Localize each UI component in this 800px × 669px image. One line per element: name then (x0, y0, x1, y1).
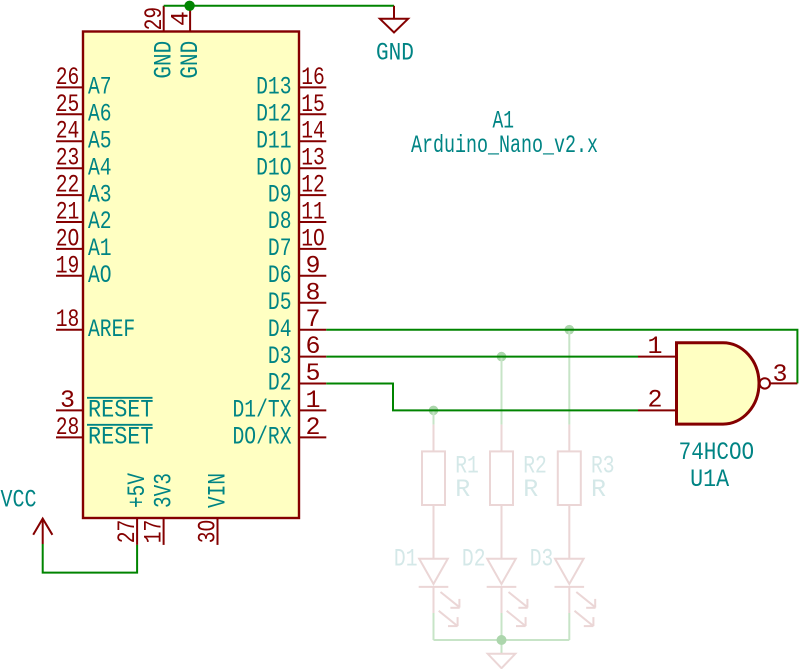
svg-text:13: 13 (301, 144, 325, 173)
svg-text:VCC: VCC (1, 486, 37, 515)
svg-text:29: 29 (140, 7, 169, 31)
wire faded D2 to rail (501, 613, 503, 640)
pin 19 (A0) left (56, 251, 112, 290)
ground symbol faded bottom (488, 640, 516, 668)
pin 11 (D8) right (268, 198, 326, 237)
svg-text:1: 1 (305, 386, 320, 415)
svg-text:D12: D12 (256, 100, 291, 129)
pin 29 (GND) top (140, 6, 179, 79)
pin 4 (GND) top (167, 6, 206, 79)
label R3 R value (591, 452, 615, 504)
svg-text:A2: A2 (88, 207, 112, 236)
svg-text:R: R (523, 475, 538, 504)
svg-text:U1A: U1A (690, 465, 729, 494)
svg-text:R: R (591, 475, 606, 504)
wire faded to R3 (568, 330, 570, 425)
pin 2 NAND input (638, 386, 677, 415)
pin 1 NAND input (638, 332, 677, 361)
led D3 (555, 532, 596, 626)
svg-text:AO: AO (88, 261, 112, 290)
junction faded net R3 (565, 325, 575, 335)
led D2 (487, 532, 528, 626)
label R2 R value (523, 452, 547, 504)
svg-text:D11: D11 (256, 126, 291, 155)
svg-text:27: 27 (113, 520, 142, 544)
pin 22 (A3) left (56, 171, 112, 210)
svg-text:D6: D6 (268, 261, 292, 290)
pin 15 (D12) right (256, 90, 326, 129)
svg-text:D13: D13 (256, 73, 291, 102)
junction faded bottom rail (497, 635, 507, 645)
svg-text:6: 6 (305, 332, 320, 361)
svg-text:GND: GND (376, 39, 414, 68)
svg-text:3: 3 (773, 360, 788, 389)
wire D2 to NAND input 2 (326, 384, 638, 411)
pin 24 (A5) left (56, 117, 112, 156)
svg-text:A4: A4 (88, 153, 112, 182)
label D3 reference (530, 545, 554, 574)
pin 8 (D5) right (268, 278, 326, 317)
svg-text:21: 21 (56, 198, 80, 227)
svg-text:14: 14 (301, 117, 325, 146)
svg-text:Arduino_Nano_v2.x: Arduino_Nano_v2.x (411, 131, 598, 160)
pin 30 (VIN) bottom (194, 473, 233, 545)
svg-text:3: 3 (60, 386, 75, 415)
pin 16 (D13) right (256, 63, 326, 102)
svg-text:D9: D9 (268, 180, 292, 209)
svg-text:11: 11 (301, 198, 325, 227)
svg-text:D5: D5 (268, 288, 292, 317)
svg-text:D1/TX: D1/TX (233, 396, 292, 425)
junction faded net R2 (497, 352, 507, 362)
pin 18 (AREF) left (56, 305, 136, 344)
pin 1 (D1/TX) right (233, 386, 327, 425)
pin 9 (D6) right (268, 251, 326, 290)
svg-text:17: 17 (140, 520, 169, 544)
label 74HC00 value (679, 438, 755, 467)
svg-text:1: 1 (647, 332, 662, 361)
svg-text:GND: GND (150, 41, 179, 79)
svg-text:74HCOO: 74HCOO (679, 438, 755, 467)
pin 12 (D9) right (268, 171, 326, 210)
svg-text:A6: A6 (88, 100, 112, 129)
pin 2 (D0/RX) right (233, 413, 327, 452)
svg-text:2O: 2O (56, 224, 80, 253)
label D2 reference (462, 545, 486, 574)
svg-text:RESET: RESET (88, 423, 154, 452)
pin 7 (D4) right (268, 305, 326, 344)
svg-text:8: 8 (305, 278, 320, 307)
junction pin4/GND wire (184, 1, 194, 11)
led D1 (419, 532, 460, 626)
pin 21 (A2) left (56, 198, 112, 237)
svg-text:A1: A1 (88, 234, 112, 263)
arduino A1 body (83, 32, 299, 519)
pin 6 (D3) right (268, 332, 326, 371)
pin 20 (A1) left (56, 224, 112, 263)
svg-text:4: 4 (167, 11, 196, 26)
wire faded D3 to rail (568, 613, 570, 640)
svg-text:A7: A7 (88, 73, 112, 102)
svg-text:A5: A5 (88, 126, 112, 155)
svg-text:9: 9 (305, 251, 320, 280)
wire faded to R2 (501, 357, 503, 425)
svg-text:3O: 3O (194, 520, 223, 544)
svg-text:19: 19 (56, 251, 80, 280)
svg-text:DO/RX: DO/RX (233, 423, 292, 452)
pin 23 (A4) left (56, 144, 112, 183)
nand gate U1A body (677, 343, 760, 424)
svg-text:D3: D3 (530, 545, 554, 574)
wire faded to R1 (433, 410, 435, 424)
svg-text:D2: D2 (268, 369, 292, 398)
svg-text:22: 22 (56, 171, 80, 200)
svg-text:28: 28 (56, 413, 80, 442)
svg-text:A3: A3 (88, 180, 112, 209)
pin 3 (RESET) left (56, 386, 154, 425)
label D1 reference (394, 545, 418, 574)
pin 13 (D10) right (256, 144, 326, 183)
svg-text:7: 7 (305, 305, 320, 334)
pin 17 (3V3) bottom (140, 473, 179, 545)
svg-text:2: 2 (647, 386, 662, 415)
svg-text:VIN: VIN (204, 473, 233, 508)
pin 14 (D11) right (256, 117, 326, 156)
svg-text:AREF: AREF (88, 315, 135, 344)
svg-text:15: 15 (301, 90, 325, 119)
label U1A reference (690, 465, 729, 494)
wire pin27 to VCC symbol (43, 544, 137, 573)
wire D3 to NAND input 1 (326, 356, 638, 358)
pin 25 (A6) left (56, 90, 112, 129)
label VCC (1, 486, 37, 515)
svg-text:D8: D8 (268, 207, 292, 236)
resistor R1 (422, 425, 445, 532)
pin 3 NAND output with bubble (760, 360, 798, 389)
svg-text:18: 18 (56, 305, 80, 334)
wire faded D1 to rail (433, 613, 435, 640)
power symbol VCC (33, 519, 52, 544)
pin 10 (D7) right (268, 224, 326, 263)
pin 26 (A7) left (56, 63, 112, 102)
label R1 R value (455, 452, 479, 504)
svg-text:25: 25 (56, 90, 80, 119)
svg-text:24: 24 (56, 117, 80, 146)
svg-text:3V3: 3V3 (150, 473, 179, 508)
svg-text:26: 26 (56, 63, 80, 92)
label Arduino_Nano_v2.x value (411, 131, 598, 160)
pin 5 (D2) right (268, 359, 326, 398)
pin 27 (+5V) bottom (113, 473, 152, 545)
resistor R3 (558, 425, 581, 532)
wire faded bottom rail (434, 639, 570, 641)
svg-text:D2: D2 (462, 545, 486, 574)
junction faded net R1 (429, 406, 439, 416)
wire pin29 to GND symbol (164, 5, 394, 7)
svg-text:1O: 1O (301, 224, 325, 253)
svg-text:D3: D3 (268, 342, 292, 371)
svg-text:R: R (455, 475, 470, 504)
svg-text:D1O: D1O (256, 153, 291, 182)
svg-text:2: 2 (305, 413, 320, 442)
svg-text:23: 23 (56, 144, 80, 173)
ground symbol top right (380, 6, 408, 33)
label A1 reference (493, 106, 515, 135)
wire D4 to NAND output net (326, 330, 797, 384)
svg-text:D7: D7 (268, 234, 292, 263)
svg-text:5: 5 (305, 359, 320, 388)
svg-text:GND: GND (176, 41, 205, 79)
svg-text:RESET: RESET (88, 396, 154, 425)
pin 28 (RESET) left (56, 413, 154, 452)
svg-text:+5V: +5V (123, 473, 152, 508)
resistor R2 (490, 425, 513, 532)
svg-text:16: 16 (301, 63, 325, 92)
svg-text:D4: D4 (268, 315, 292, 344)
svg-text:12: 12 (301, 171, 325, 200)
label GND (376, 39, 414, 68)
svg-text:D1: D1 (394, 545, 418, 574)
